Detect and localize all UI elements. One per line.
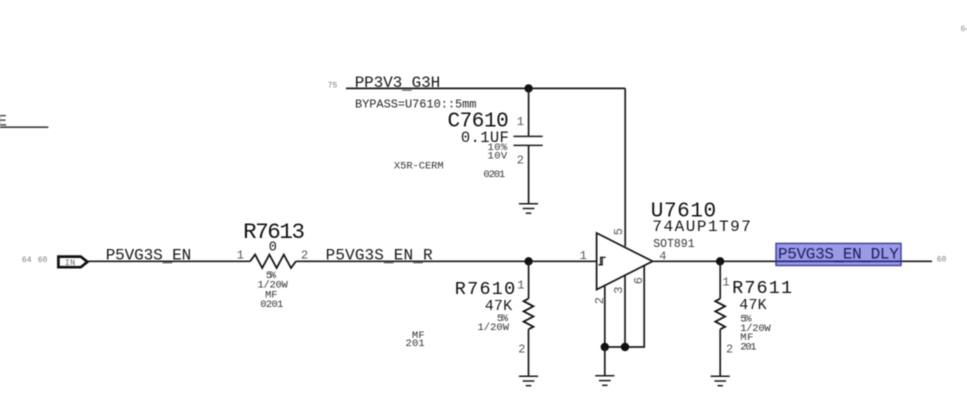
ground R7611: [711, 376, 730, 386]
svg-text:1: 1: [722, 275, 729, 289]
svg-text:R7610: R7610: [455, 279, 515, 300]
svg-text:1: 1: [237, 249, 244, 263]
node junction at R7611: [716, 257, 724, 265]
wire E stub: [0, 126, 48, 128]
svg-text:2: 2: [726, 342, 733, 356]
svg-text:64: 64: [22, 256, 32, 265]
svg-text:IN: IN: [65, 258, 76, 268]
svg-text:R7611: R7611: [732, 278, 792, 299]
svg-text:0201: 0201: [260, 299, 283, 311]
wire R7610 top lead: [528, 261, 530, 298]
wire rail corner down to U7610 pin 5: [624, 88, 626, 246]
wire P5VG3S_EN_R: [296, 260, 597, 262]
svg-text:201: 201: [406, 338, 425, 350]
ground C7610: [519, 204, 538, 214]
node U7610 pin 2 junction: [601, 343, 609, 351]
node junction at R7610: [524, 257, 532, 265]
node U7610 pin 3 junction: [621, 343, 629, 351]
ground R7610: [519, 376, 538, 386]
svg-text:1: 1: [580, 249, 587, 263]
svg-text:5: 5: [612, 228, 626, 235]
wire U7610 pin 6: [605, 265, 644, 347]
wire C7610 top lead: [528, 88, 530, 135]
svg-text:201: 201: [740, 341, 756, 353]
svg-text:2: 2: [518, 342, 525, 356]
svg-text:47K: 47K: [739, 297, 767, 314]
svg-text:P5VG3S_EN: P5VG3S_EN: [106, 246, 192, 266]
wire R7610 bottom lead: [528, 329, 530, 376]
svg-text:64: 64: [961, 25, 967, 34]
wire U7610 ground lead: [604, 347, 606, 376]
ground U7610: [595, 376, 614, 386]
svg-text:1: 1: [517, 115, 524, 129]
connector IN: [58, 257, 87, 268]
svg-text:1: 1: [517, 278, 524, 292]
capacitor C7610 plates: [513, 136, 542, 145]
svg-text:3: 3: [612, 287, 626, 294]
resistor R7611 body: [715, 299, 725, 330]
svg-text:75: 75: [328, 82, 338, 91]
svg-text:10V: 10V: [488, 151, 508, 163]
wire U7610 output pin 4: [653, 260, 932, 262]
wire R7611 bottom lead: [719, 329, 721, 376]
resistor R7613 body: [250, 255, 296, 268]
op-amp U7610 body: [597, 233, 653, 290]
svg-text:60: 60: [38, 256, 48, 265]
wire C7610 bottom lead: [528, 145, 530, 203]
wire PP3V3_G3H rail: [346, 87, 625, 89]
wire U7610 pin 3: [624, 275, 626, 348]
net P5VG3S_EN_DLY highlight: [776, 243, 901, 265]
svg-text:2: 2: [517, 154, 524, 168]
resistor R7610 body: [524, 299, 534, 330]
svg-text:P5VG3S_EN_R: P5VG3S_EN_R: [326, 246, 433, 266]
svg-text:P5VG3S_EN_DLY: P5VG3S_EN_DLY: [778, 246, 899, 266]
wire U7610 pin 2: [604, 285, 606, 347]
svg-text:1/20W: 1/20W: [478, 322, 510, 334]
svg-text:0: 0: [269, 240, 277, 255]
svg-text:X5R-CERM: X5R-CERM: [394, 161, 444, 173]
svg-text:60: 60: [937, 256, 947, 265]
svg-text:74AUP1T97: 74AUP1T97: [652, 218, 751, 236]
svg-text:0201: 0201: [483, 169, 505, 181]
node junction rail / C7610: [524, 84, 532, 92]
wire R7611 top lead: [719, 261, 721, 298]
svg-text:PP3V3_G3H: PP3V3_G3H: [355, 74, 441, 94]
schmitt trigger symbol: [598, 257, 605, 265]
wire P5VG3S_EN: [88, 260, 250, 262]
wire inside highlight (tinted): [776, 260, 901, 262]
svg-text:BYPASS=U7610::5mm: BYPASS=U7610::5mm: [355, 98, 477, 112]
